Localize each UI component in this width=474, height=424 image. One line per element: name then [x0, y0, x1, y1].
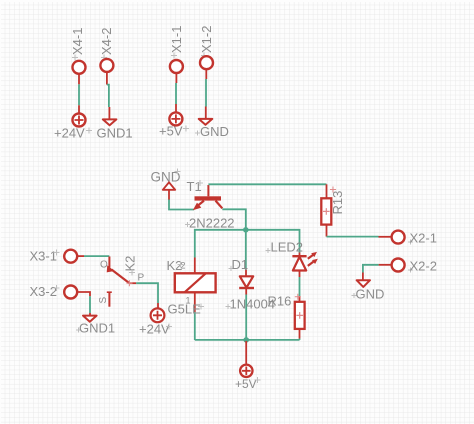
svg-text:O: O	[100, 260, 108, 271]
svg-text:X3-1: X3-1	[30, 249, 57, 264]
label +5V (top)	[159, 124, 189, 139]
LED2 bottom pin	[299, 271, 301, 302]
svg-text:X1-2: X1-2	[199, 26, 214, 53]
bottom rail wire	[195, 339, 300, 341]
wire rail to +5V	[245, 341, 247, 364]
svg-text:+5V: +5V	[235, 377, 257, 391]
wire contact P to +24V	[136, 283, 158, 303]
connector pad X1-2	[200, 56, 213, 69]
label K2 (contact)	[123, 256, 138, 276]
label GND (X2-2)	[352, 287, 385, 302]
label GND1 (top)	[97, 126, 133, 141]
connector X4-1 label	[70, 28, 85, 61]
svg-text:X2-2: X2-2	[410, 259, 437, 274]
svg-text:T1: T1	[187, 179, 202, 194]
svg-text:G5LE: G5LE	[168, 302, 202, 317]
svg-text:R16: R16	[268, 294, 292, 309]
junction node bottom	[243, 337, 249, 343]
svg-text:S: S	[98, 297, 109, 304]
supply +24V symbol (switch)	[151, 308, 165, 322]
wire X4-1 to +24V	[78, 74, 80, 113]
ground GND symbol near T1	[151, 169, 181, 185]
connector X4-2 label	[99, 28, 114, 61]
ground GND1 symbol (left)	[83, 316, 97, 322]
svg-text:R13: R13	[330, 191, 345, 215]
label G5LE	[168, 302, 205, 317]
connector X3-1 label	[30, 249, 60, 264]
label +24V	[54, 126, 92, 141]
svg-text:+24V: +24V	[54, 126, 85, 141]
wire T1 collector to junction	[222, 209, 246, 230]
resistor R16	[295, 302, 305, 329]
wire R13 to X2-1	[327, 236, 392, 238]
wire junction to LED2	[246, 230, 300, 256]
relay coil K2 label	[167, 258, 184, 273]
svg-text:X3-2: X3-2	[30, 284, 57, 299]
relay coil bottom pin	[194, 292, 196, 340]
transistor T1 label	[187, 179, 204, 194]
svg-text:X2-1: X2-1	[410, 231, 437, 246]
ground up-triangle	[163, 182, 175, 190]
connector X3-2 label	[30, 284, 60, 299]
wire X2-2 to GND	[363, 265, 392, 280]
LED LED2	[292, 252, 317, 271]
transistor T1 2N2222	[193, 185, 223, 210]
ground GND symbol (top)	[199, 119, 213, 125]
svg-text:GND1: GND1	[97, 126, 133, 141]
connector pad X4-2	[100, 59, 113, 72]
label +5V (bottom)	[235, 377, 261, 391]
relay contact K2	[107, 257, 137, 307]
wire X4-2 to GND1	[107, 72, 110, 119]
svg-text:P: P	[138, 273, 145, 284]
svg-text:+24V: +24V	[139, 322, 170, 337]
connector pad X1-1	[170, 60, 183, 73]
label GND (top)	[195, 124, 229, 139]
svg-text:K2: K2	[123, 256, 138, 272]
svg-text:GND: GND	[200, 124, 229, 139]
resistor R13	[321, 184, 331, 236]
supply +5V symbol (bottom)	[240, 365, 252, 377]
wire junction to relay coil	[195, 230, 246, 258]
svg-text:+5V: +5V	[159, 124, 183, 139]
label 2N2222	[185, 216, 235, 231]
wire X3-2 to GND1	[77, 292, 90, 316]
relay coil K2	[175, 273, 216, 292]
svg-text:D1: D1	[232, 257, 249, 272]
ground GND symbol (X2-2)	[357, 280, 370, 287]
ground GND1 symbol (top)	[103, 119, 117, 125]
wire X1-1 to +5V	[175, 73, 177, 112]
svg-text:X4-2: X4-2	[99, 28, 114, 55]
wire X1-2 to GND	[205, 70, 208, 119]
supply +5V symbol (top)	[169, 112, 182, 125]
svg-text:2: 2	[181, 261, 186, 271]
label X2-2	[408, 259, 437, 274]
diode D1 label	[229, 257, 249, 272]
supply +24V symbol	[73, 114, 86, 127]
LED2 label	[266, 240, 304, 255]
diode D1	[239, 276, 254, 288]
connector X1-1 label	[169, 26, 184, 59]
svg-text:2N2222: 2N2222	[189, 216, 235, 231]
connector pad X3-1	[64, 250, 77, 263]
label R13	[330, 187, 345, 215]
svg-text:GND1: GND1	[79, 321, 115, 336]
wire X3-1 to contact O	[77, 255, 109, 257]
connector pad X3-2	[64, 286, 77, 299]
label GND1 (left)	[76, 321, 115, 336]
svg-text:GND: GND	[356, 287, 385, 302]
connector pad X4-1	[73, 61, 86, 74]
label 1N4004	[226, 297, 276, 312]
label X2-1	[408, 231, 437, 246]
R16 bottom pin	[299, 329, 301, 340]
wire T1 base to R13	[208, 183, 326, 185]
label R16	[268, 294, 301, 309]
connector pad X2-1	[392, 231, 405, 244]
junction node collector	[243, 227, 249, 233]
connector pad X2-2	[392, 259, 405, 272]
diode D1 bottom pin	[245, 288, 247, 340]
svg-text:X4-1: X4-1	[70, 28, 85, 55]
svg-text:LED2: LED2	[271, 240, 304, 255]
svg-text:X1-1: X1-1	[169, 26, 184, 53]
wire junction to D1	[245, 230, 247, 276]
label +24V (switch)	[139, 322, 172, 337]
connector X1-2 label	[199, 26, 214, 59]
wire GND to T1 emitter	[169, 190, 194, 210]
